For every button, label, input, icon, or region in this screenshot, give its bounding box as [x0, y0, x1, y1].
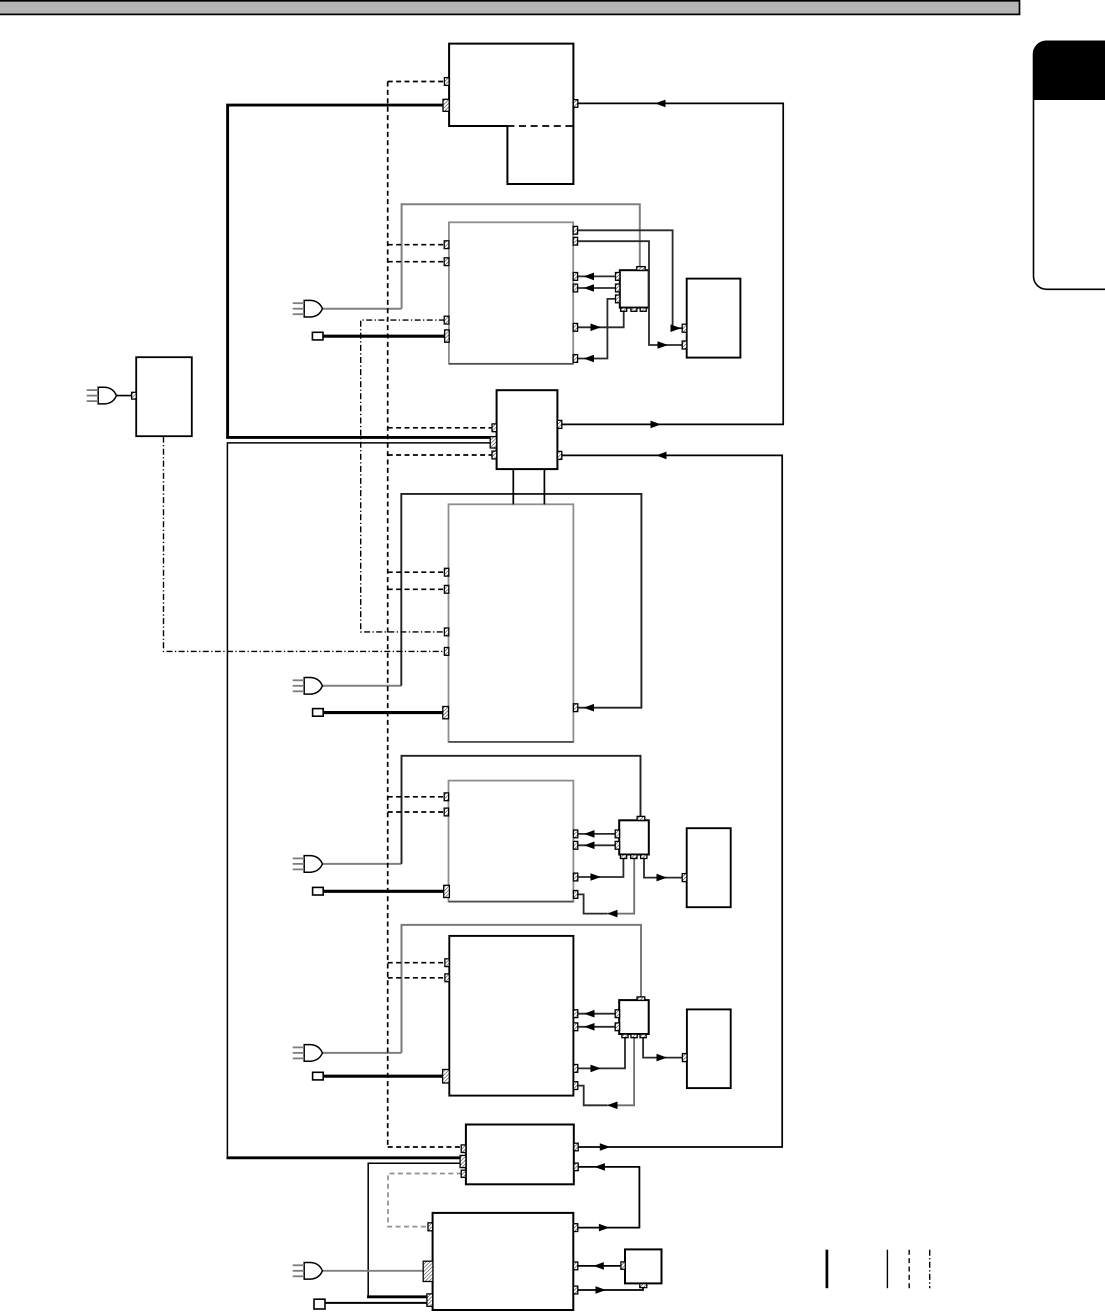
connector A antenna terminal [443, 99, 449, 111]
connector E right [573, 704, 577, 712]
wire: I out1 up to H in2 [578, 1167, 639, 1228]
connector C1 bottom1 [621, 308, 627, 312]
wire: coax stub into E terminal (thick) [323, 711, 443, 714]
wire: plug P0 lead to wall box [115, 395, 133, 397]
device box F (VCR 1, gray) [449, 781, 574, 902]
connector F in2 [444, 808, 448, 816]
wire: dashed branch to G in1 [388, 962, 446, 964]
device box G (VCR 2) [449, 936, 573, 1096]
connector E in3 [444, 628, 448, 636]
arrow into I in [593, 1262, 604, 1270]
arrow on return to G [607, 1102, 618, 1110]
device box H (distribution amplifier) [466, 1125, 574, 1185]
arrow into D1 in1 [671, 324, 682, 332]
connector B out5 [573, 323, 577, 331]
connector D3 in [682, 1054, 687, 1062]
connector G out3 [573, 1065, 577, 1073]
wire: C3 out1 to G [578, 1013, 616, 1015]
connector D1 in2 [682, 341, 687, 349]
wire: B out2 to D1 in2 [573, 241, 682, 345]
wire: B out to C1 bottom1 [578, 311, 624, 327]
connector K in3 [492, 451, 497, 459]
connector B out2 [573, 237, 577, 245]
legend: dash-dot line sample [929, 1250, 931, 1289]
arrow into F in2 [584, 842, 595, 850]
wire: splitter K out1 up to TV A [562, 103, 783, 424]
connector C3 in2 [615, 1023, 619, 1031]
arrow into G in [584, 1010, 595, 1018]
connector C2 in1 [615, 830, 619, 838]
wire: cable into H antenna terminal (thick end) [227, 1156, 461, 1159]
wire: cable splitter K to amplifier H (left route) [227, 443, 490, 1157]
AC power plug P1 [293, 300, 323, 317]
wire: dashed branch to TV A [388, 81, 444, 83]
coax cable plug F [313, 887, 324, 895]
arrow toward TV A [655, 100, 666, 108]
connector E in1 [444, 568, 448, 576]
connector C3 in1 [615, 1010, 619, 1018]
connector W in [132, 392, 137, 399]
connector I out2 [573, 1262, 577, 1270]
wire: return into F in4 [578, 894, 607, 913]
arrow into D1 in2 [658, 341, 669, 349]
wire: dashed branch to E in1 [388, 571, 445, 573]
connector I out1 [573, 1224, 577, 1232]
arrow into B in4 [584, 284, 595, 292]
connector G out2 [573, 1023, 577, 1031]
connector C2 bottom2 [631, 855, 637, 859]
connector H out2 [574, 1163, 578, 1171]
arrow into E right connector [584, 704, 595, 712]
connector K antenna terminal [490, 437, 496, 448]
wire: C3 out2 to G [578, 1026, 616, 1028]
device box K (splitter) [497, 390, 558, 469]
connector H antenna terminal [460, 1155, 466, 1167]
connector C3 top [637, 997, 645, 1000]
device box C2 (RF modulator) [619, 820, 649, 854]
connector I in1 [428, 1223, 433, 1231]
AC power plug P3 [293, 856, 323, 873]
device box B (cable box, gray) [449, 222, 573, 363]
legend: thick line sample [826, 1250, 829, 1289]
wire: dashed branch to B in2 [388, 261, 445, 263]
wire: dash-dot link B to E [361, 320, 446, 632]
connector I power terminal [423, 1261, 433, 1281]
AC power plug P0 [87, 387, 117, 404]
device box C1 (RF modulator) [620, 270, 649, 307]
connector H in1 [461, 1145, 466, 1153]
device box A (TV) [449, 44, 573, 184]
wire: amplifier H out up to splitter K in [562, 455, 782, 1147]
wire: bus K to E right [543, 469, 545, 504]
wire: dashed branch to E in2 [388, 588, 445, 590]
connector H out1 [574, 1143, 578, 1151]
arrow on K out1 [651, 421, 662, 429]
connector C1 bottom3 [640, 308, 646, 312]
connector C1 in1 [616, 273, 620, 281]
wire: dashed control bus vertical [387, 82, 389, 1148]
arrow toward J [596, 1286, 607, 1294]
wire: feed to RF modulator C1 (gray) [402, 204, 640, 308]
side tab [1034, 41, 1105, 289]
wire: dashed branch to B in1 [388, 244, 445, 246]
device box D1 (converter) [687, 279, 741, 358]
connector B in1 [444, 241, 449, 249]
darker base edge of B [449, 363, 573, 365]
connector J in [621, 1262, 625, 1269]
connector B in3 [444, 316, 449, 324]
wire: F out to C2 bottom1 [578, 859, 623, 878]
wire: B out1 to D1 in1 [573, 230, 682, 328]
connector E in4 [444, 648, 448, 656]
connector E in2 [444, 585, 448, 593]
wire: dashed branch to H in1 [388, 1146, 462, 1148]
arrow toward C2 [591, 873, 602, 881]
wire: C3 bottom3 to D3 [643, 1034, 683, 1057]
connector C2 bottom1 [620, 855, 626, 859]
connector C1 in3 [616, 295, 620, 303]
arrow into F in [584, 830, 595, 838]
wire: C1 out1 to B [578, 275, 616, 277]
connector B antenna terminal [445, 330, 450, 342]
wire: power lead plug P2 (gray) [323, 685, 402, 687]
connector G in2 [445, 974, 449, 982]
device box W (wall outlet) [136, 357, 192, 436]
connector K out2 [557, 451, 561, 459]
AC power plug P4 [293, 1045, 323, 1062]
connector K out1 [557, 420, 561, 428]
wire: C1 out2 to B [578, 287, 616, 289]
wire: feed to RF modulator C2 [402, 756, 641, 864]
device box I (satellite receiver) [433, 1213, 574, 1310]
connector B out6 [573, 355, 577, 363]
arrow on return to F [607, 910, 618, 918]
legend: thin line sample [886, 1250, 888, 1289]
connector C2 bottom3 [641, 855, 647, 859]
connector B out1 [573, 226, 577, 234]
dashed divider of TV stand [507, 125, 573, 127]
darker base edge of E [449, 741, 574, 743]
device box J (RF modulator for I) [625, 1249, 662, 1283]
connector I out3 [573, 1286, 577, 1294]
wire: C1 out3 to B in6 [578, 299, 616, 359]
wire: C2 bottom2 return to F (gray) [607, 859, 634, 914]
wire: coax cable TV A to splitter K (thick) [228, 105, 491, 437]
connector C3 bottom3 [640, 1034, 646, 1038]
connector B out3 [573, 273, 577, 281]
connector A out [573, 100, 577, 108]
connector H in3 [461, 1170, 466, 1177]
legend: dashed line sample [908, 1250, 910, 1289]
wire: coax stub into F terminal (thick) [323, 890, 444, 893]
wire: return into G in4 [578, 1086, 607, 1106]
connector G antenna terminal [443, 1070, 450, 1084]
connector C2 top [637, 816, 645, 820]
darker base edge of F [449, 901, 574, 903]
arrow on H out1 [600, 1143, 611, 1151]
wire: bus K to E left [512, 469, 514, 504]
wire: G out to C3 bottom1 [578, 1034, 625, 1068]
wire: dashed branch to G in2 [388, 977, 446, 979]
wire: C2 out2 to F [578, 844, 616, 846]
connector I lower terminal [427, 1294, 433, 1306]
wire: power lead plug P3 (gray) [323, 863, 402, 865]
arrow into H in2 [594, 1163, 605, 1171]
device box D3 (converter) [687, 1009, 731, 1088]
wire: gray dashed link H to I [388, 1174, 462, 1227]
wire: dash-dot link wall box to E [164, 437, 446, 652]
coax cable plug I [314, 1299, 325, 1309]
coax cable plug B [312, 332, 323, 340]
wire: feed to RF modulator C3 (gray) [402, 925, 642, 1053]
connector C1 in2 [616, 284, 620, 292]
device box E (receiver, gray) [449, 504, 574, 742]
arrow on I out1 [599, 1224, 610, 1232]
wire: power lead plug P4 (gray) [323, 1052, 402, 1054]
connector C3 bottom1 [622, 1034, 628, 1038]
coax cable plug G [313, 1072, 324, 1080]
wire: power lead plug P1 (gray) [323, 308, 402, 310]
wire: C2 out1 to F [578, 833, 616, 835]
wire: coax stub into I lower terminal [325, 1302, 428, 1304]
connector A ctrl in [444, 78, 449, 86]
connector B in2 [444, 258, 449, 266]
connector D2 in [682, 874, 687, 882]
wire: dashed branch to K in1 [388, 427, 493, 429]
connector C3 bottom2 [631, 1034, 637, 1038]
connector G out4 [573, 1082, 577, 1090]
arrow into B in6 [584, 355, 595, 363]
connector J bottom [640, 1284, 647, 1288]
arrow toward C3 [591, 1065, 602, 1073]
wire: coax stub into B terminal (thick) [323, 335, 446, 338]
wire: C2 bottom3 to D2 [644, 859, 683, 878]
wire: dashed branch to F in2 [388, 811, 445, 813]
wire: C3 bottom2 return to G (gray) [607, 1034, 634, 1105]
wire: coax stub into G terminal (thick) [323, 1075, 443, 1078]
connector D1 in1 [682, 324, 687, 332]
arrow into G in2 [584, 1023, 595, 1031]
arrow toward C1 [591, 324, 602, 332]
wire: power lead plug P5 into I terminal (gray) [323, 1270, 424, 1272]
connector F out1 [573, 830, 577, 838]
wire: J out to I in [578, 1265, 621, 1267]
AC power plug P5 [293, 1263, 323, 1280]
wire: thick end into I lower terminal [367, 1295, 427, 1298]
connector C1 top [637, 267, 645, 271]
device box C3 (RF modulator) [619, 1000, 649, 1034]
connector F in1 [444, 793, 448, 801]
arrow into D3 [657, 1054, 668, 1062]
arrow into D2 [657, 874, 668, 882]
coax cable plug E [313, 709, 324, 717]
AC power plug P2 [293, 678, 323, 695]
connector F out3 [573, 873, 577, 881]
connector F out4 [573, 891, 577, 899]
connector G in1 [445, 959, 449, 967]
connector E antenna terminal [443, 707, 449, 719]
wire: receiver I RF out up to H (thin route) [368, 1163, 460, 1296]
wire: I out2 to J bottom [578, 1287, 643, 1290]
header bar [0, 1, 1020, 15]
device box D2 (converter) [687, 828, 731, 907]
connector C1 bottom2 [631, 308, 637, 312]
arrow into K in2 [656, 452, 667, 460]
wire: dashed branch to K in3 [388, 454, 493, 456]
connector C2 in2 [615, 841, 619, 849]
wire: feed around receiver E into right connector [401, 494, 641, 708]
connector F antenna terminal [444, 885, 450, 897]
connector F out2 [573, 841, 577, 849]
connector K in1 [492, 424, 497, 432]
arrow into B in3 [584, 273, 595, 281]
connector G out1 [573, 1010, 577, 1018]
connector B out4 [573, 284, 577, 292]
wire: dashed branch to F in1 [388, 796, 445, 798]
